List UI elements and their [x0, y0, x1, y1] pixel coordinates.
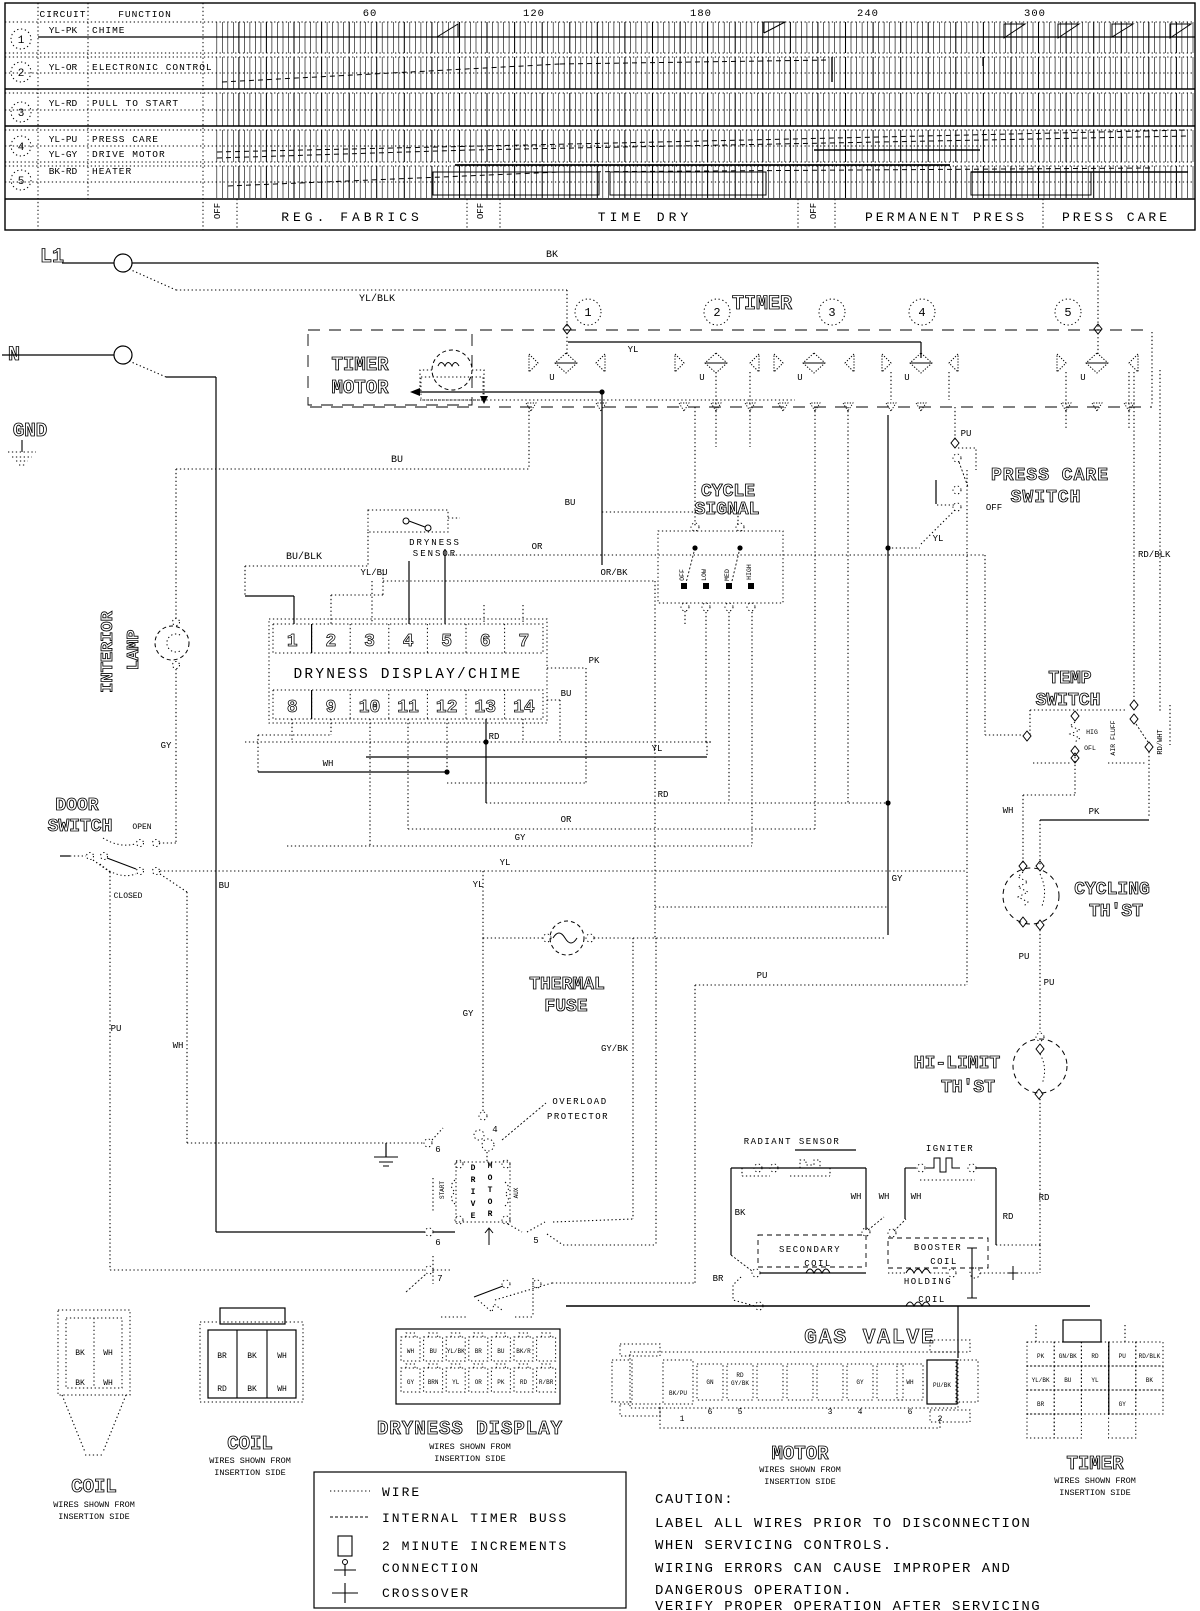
door switch feed dotted	[70, 855, 86, 857]
svg-text:IGNITER: IGNITER	[926, 1144, 974, 1154]
svg-text:LAMP: LAMP	[125, 630, 144, 671]
timer cam circle 5	[1055, 299, 1081, 325]
svg-text:4: 4	[858, 1408, 863, 1417]
chart row divider (dotted)	[5, 181, 1195, 183]
dryness conn top cell BK/R	[514, 1337, 533, 1361]
svg-text:PU: PU	[1019, 952, 1030, 962]
svg-text:M: M	[488, 1162, 493, 1171]
wire into pin1 (solid)	[245, 595, 294, 597]
wire PU cycling down	[1039, 930, 1041, 1032]
temp switch bottom diamond	[1071, 746, 1079, 756]
svg-text:YL/BK: YL/BK	[1032, 1377, 1050, 1384]
radiant sensor bracket	[742, 1175, 770, 1177]
timer terminal triangle	[916, 403, 926, 411]
thermal fuse circle	[550, 921, 584, 955]
timer conn cell r2c2	[1081, 1390, 1108, 1414]
svg-text:RD: RD	[520, 1379, 528, 1386]
wire RD/BLK vertical	[1159, 370, 1161, 712]
chart column line function	[87, 3, 89, 199]
timer connector tabs	[1063, 1320, 1101, 1342]
wire PU down to gas valve area	[694, 985, 696, 1283]
svg-text:GY: GY	[407, 1379, 415, 1386]
cycle signal out stub 1	[684, 611, 686, 625]
door switch open contacts	[137, 840, 144, 847]
wire into temp switch	[985, 734, 1000, 736]
svg-text:1: 1	[18, 35, 25, 47]
motor conn cell BK/PU	[663, 1360, 693, 1404]
svg-text:INTERIOR: INTERIOR	[99, 610, 118, 692]
chart column line circuit	[37, 3, 39, 230]
wire YL solid mid	[366, 756, 707, 758]
svg-text:RD: RD	[1003, 1212, 1014, 1222]
dryness conn bottom cell BRN	[424, 1368, 443, 1392]
dryness conn top cell 6	[537, 1337, 556, 1361]
svg-text:11: 11	[397, 698, 419, 718]
chart trace heater	[228, 172, 560, 186]
timer cam circle 1	[575, 299, 601, 325]
temp switch bracket	[1030, 709, 1125, 711]
wire WH from temp switch	[1074, 757, 1076, 795]
svg-text:PERMANENT PRESS: PERMANENT PRESS	[865, 210, 1027, 225]
svg-text:6: 6	[708, 1408, 713, 1417]
motor centrifugal contacts	[502, 1280, 510, 1288]
svg-text:DOOR: DOOR	[55, 796, 98, 816]
motor terminal 6 circle	[425, 1228, 433, 1236]
motor terminal 6a circle	[424, 1139, 432, 1147]
wire BK from L1 (solid)	[132, 262, 1098, 264]
svg-text:REG. FABRICS: REG. FABRICS	[281, 210, 423, 225]
chart circuit number 3	[11, 102, 31, 122]
press care common circle	[953, 454, 961, 462]
svg-text:GY/BK: GY/BK	[601, 1044, 629, 1054]
temp switch right diamond 3	[1145, 742, 1153, 752]
svg-text:YL: YL	[1091, 1377, 1099, 1384]
wire motor conn 2 (solid)	[957, 1306, 959, 1358]
svg-text:WH: WH	[323, 759, 334, 769]
booster coil box	[888, 1238, 988, 1268]
svg-text:GY: GY	[892, 874, 903, 884]
svg-text:YL: YL	[452, 1379, 460, 1386]
door switch feed (solid)	[60, 855, 70, 857]
wire pin8 down	[291, 719, 293, 742]
wire PU to motor 7	[110, 1269, 424, 1271]
svg-text:I: I	[471, 1188, 476, 1197]
motor centrifugal actuator	[478, 1300, 502, 1312]
dryness display cell divider	[311, 624, 313, 653]
dryness conn bottom cell R/BR	[537, 1368, 556, 1392]
dryness display connector outer	[396, 1329, 560, 1404]
svg-text:PK: PK	[497, 1379, 505, 1386]
svg-text:WH: WH	[407, 1348, 415, 1355]
dryness display cell divider	[426, 624, 428, 653]
radiant sensor underline	[795, 1149, 856, 1151]
dryness conn bottom cell YL	[446, 1368, 465, 1392]
svg-text:YL: YL	[628, 345, 639, 355]
cycle signal bottom pin	[725, 603, 733, 611]
cycle signal lower contact	[703, 583, 709, 589]
motor conn cell 757	[757, 1364, 783, 1400]
wire BR down	[733, 1277, 755, 1306]
svg-text:YL-OR: YL-OR	[49, 62, 78, 73]
booster crossover	[971, 1248, 973, 1298]
wire contact3 drop	[814, 407, 816, 829]
press care NO corner	[958, 448, 976, 470]
svg-text:SECONDARY: SECONDARY	[779, 1245, 841, 1255]
svg-text:BK: BK	[735, 1208, 746, 1218]
ground symbol motor	[374, 1156, 398, 1158]
chart chime mark 3	[1004, 24, 1025, 38]
svg-text:O: O	[488, 1174, 493, 1183]
svg-text:HI-LIMIT: HI-LIMIT	[914, 1054, 1001, 1074]
cycling thst top diamonds	[1019, 861, 1027, 871]
timer conn mid divider	[1108, 1342, 1110, 1414]
chart row divider (dotted)	[5, 145, 1195, 147]
svg-text:BK/R: BK/R	[516, 1348, 531, 1355]
timer cam circle 3	[819, 299, 845, 325]
holding coil line	[888, 1272, 906, 1274]
wire BU to motor (solid)	[216, 1231, 425, 1233]
press care L bracket	[935, 480, 937, 504]
svg-text:U: U	[1080, 373, 1085, 383]
svg-text:BRN: BRN	[428, 1379, 439, 1386]
timer conn cell r1c0	[1027, 1366, 1054, 1390]
hi-limit bottom diamond	[1035, 1089, 1043, 1099]
svg-text:BU: BU	[429, 1348, 437, 1355]
cycle signal lower contact	[748, 583, 754, 589]
dryness display pin8 divider (solid)	[311, 690, 313, 719]
svg-text:MED: MED	[724, 569, 731, 581]
stub pin7	[522, 605, 524, 624]
svg-text:BU: BU	[391, 455, 403, 466]
svg-text:BU: BU	[565, 498, 576, 508]
svg-text:COIL: COIL	[227, 1433, 273, 1455]
burner line terminal	[755, 1302, 763, 1310]
thermal fuse terminals	[543, 934, 551, 942]
chart heater box 3	[971, 172, 1091, 195]
svg-text:BU: BU	[219, 881, 230, 891]
motor centrifugal blade	[474, 1286, 503, 1297]
svg-text:BR: BR	[1037, 1401, 1045, 1408]
press care blade	[959, 462, 968, 487]
cycling thst bottom diamonds	[1019, 917, 1027, 927]
door switch closed arc	[100, 864, 136, 876]
chart heater box 2	[610, 172, 766, 195]
svg-text:START: START	[439, 1181, 446, 1199]
svg-text:GY: GY	[463, 1009, 474, 1019]
door switch closed contacts	[137, 868, 144, 875]
chart row divider (dotted)	[5, 56, 1195, 58]
svg-text:WIRES SHOWN FROM: WIRES SHOWN FROM	[53, 1500, 135, 1510]
svg-text:6: 6	[435, 1145, 440, 1155]
wire BU from box	[547, 699, 560, 701]
chart chime mark 1	[437, 24, 458, 37]
cycle signal blade 2	[731, 548, 740, 585]
timer conn cell r0c2	[1081, 1342, 1108, 1366]
svg-text:YL: YL	[933, 534, 944, 544]
svg-text:YL-GY: YL-GY	[49, 149, 78, 160]
chart row divider (dotted)	[5, 52, 1195, 54]
chart row divider (dotted)	[5, 161, 1195, 163]
motor connector right bracket	[956, 1360, 978, 1402]
dryness display cell divider	[465, 624, 467, 653]
wire contact3b drop	[847, 407, 849, 803]
legend buss sample	[330, 1516, 370, 1518]
svg-text:LABEL ALL WIRES PRIOR TO DISCO: LABEL ALL WIRES PRIOR TO DISCONNECTION	[655, 1516, 1031, 1532]
svg-text:BK: BK	[546, 250, 558, 261]
connector diamond on BK drop	[1094, 324, 1102, 334]
wire N lead	[2, 354, 114, 356]
timer contact tail	[948, 372, 950, 400]
wire OR2 horizontal	[408, 828, 815, 830]
GND lead	[21, 440, 23, 452]
cycle signal lower contact	[726, 583, 732, 589]
svg-text:GN/BK: GN/BK	[1059, 1353, 1077, 1360]
svg-text:R/BR: R/BR	[539, 1379, 554, 1386]
chart bottom divider 5	[834, 199, 836, 230]
svg-text:WH: WH	[879, 1192, 890, 1202]
timer conn cell r2c0	[1027, 1390, 1054, 1414]
motor 7 stub	[433, 1269, 452, 1271]
wire PK solid	[1040, 819, 1149, 821]
svg-text:GN: GN	[706, 1379, 714, 1386]
svg-text:INTERNAL TIMER BUSS: INTERNAL TIMER BUSS	[382, 1511, 568, 1526]
door switch open arc	[103, 838, 135, 845]
timer cam circle 4	[909, 299, 935, 325]
svg-text:COIL: COIL	[918, 1295, 946, 1305]
timer conn cell r2c3	[1109, 1390, 1136, 1414]
wire BU corner up to timer	[528, 407, 530, 469]
svg-text:GY: GY	[161, 741, 172, 751]
svg-text:OR/BK: OR/BK	[600, 568, 628, 578]
timer buss bottom (dotted)	[420, 399, 795, 401]
cycling thst heater zigzag	[1018, 872, 1028, 907]
svg-text:RD/BLK: RD/BLK	[1139, 1353, 1161, 1360]
radiant sensor element	[800, 1160, 820, 1168]
press care lower circle 2	[953, 503, 961, 511]
svg-text:PU: PU	[757, 971, 768, 981]
svg-text:GY: GY	[856, 1379, 864, 1386]
coil connector 1 inner	[66, 1318, 122, 1388]
chart trace electronic control	[222, 64, 560, 82]
wire BU lamp feed	[176, 468, 529, 470]
svg-text:U: U	[797, 373, 802, 383]
timer conn cell r3c0	[1027, 1414, 1054, 1438]
wire OR/BK heater drop	[655, 938, 657, 1245]
svg-text:FUNCTION: FUNCTION	[118, 9, 172, 20]
svg-text:WH: WH	[851, 1192, 862, 1202]
press care lower circle	[953, 486, 961, 494]
wire H742	[245, 741, 711, 743]
cycle signal pivots	[692, 545, 697, 550]
svg-text:OFF: OFF	[213, 203, 223, 219]
dryness display cell divider	[388, 624, 390, 653]
svg-text:5: 5	[533, 1236, 538, 1246]
chart trace electronic control tick	[982, 57, 984, 66]
svg-text:4: 4	[18, 142, 25, 154]
timer terminal triangle	[596, 403, 606, 411]
timer contact group 3	[774, 354, 783, 372]
svg-text:PRESS CARE: PRESS CARE	[1062, 210, 1170, 225]
svg-text:YL/BLK: YL/BLK	[359, 293, 395, 305]
coil connector 1 outer	[58, 1310, 130, 1395]
dryness conn bottom cell RD	[514, 1368, 533, 1392]
svg-text:BOOSTER: BOOSTER	[914, 1243, 962, 1253]
svg-text:TEMP: TEMP	[1048, 669, 1091, 689]
svg-text:OPEN: OPEN	[132, 823, 151, 832]
overload contacts	[474, 1130, 484, 1140]
timer terminal triangle	[843, 403, 853, 411]
timer conn cell r2c1	[1054, 1390, 1081, 1414]
svg-text:PU: PU	[1044, 978, 1055, 988]
chart chime mark 2	[764, 22, 785, 33]
timer conn cell r1c4	[1136, 1366, 1163, 1390]
wire BK drop to timer contact 5	[1097, 263, 1099, 356]
timer motor supply arrow	[410, 388, 420, 396]
svg-text:4: 4	[918, 306, 925, 320]
igniter element	[926, 1158, 960, 1172]
svg-text:CIRCUIT: CIRCUIT	[40, 9, 87, 20]
wire PK from box	[547, 667, 586, 669]
door switch blade	[107, 858, 136, 869]
dryness sensor box	[368, 510, 448, 532]
chart heater box 1	[433, 172, 599, 195]
svg-text:OFF: OFF	[679, 569, 686, 581]
motor conn cell 787	[787, 1364, 813, 1400]
svg-text:4: 4	[403, 632, 414, 652]
svg-text:SWITCH: SWITCH	[1011, 488, 1082, 508]
svg-text:7: 7	[518, 632, 529, 652]
svg-text:YL/BK: YL/BK	[447, 1348, 465, 1355]
holding coil winding	[906, 1302, 930, 1306]
svg-text:PK: PK	[589, 656, 600, 666]
svg-text:WH: WH	[277, 1385, 287, 1394]
svg-text:BU: BU	[561, 689, 572, 699]
wire pin14 down	[522, 719, 524, 742]
timer contact tail	[890, 372, 892, 400]
overload lead to motor	[486, 1152, 488, 1162]
dryness display pin1 divider (solid)	[311, 624, 313, 653]
motor conn cell 817	[817, 1364, 843, 1400]
chart row divider (dotted)	[5, 72, 1195, 74]
svg-text:BK: BK	[1146, 1377, 1154, 1384]
svg-text:2: 2	[18, 68, 25, 80]
wire main burner (solid)	[566, 1305, 1090, 1307]
svg-text:COIL: COIL	[930, 1257, 958, 1267]
cycle signal lower contact	[681, 583, 687, 589]
svg-text:5: 5	[1064, 306, 1071, 320]
interior lamp terminals	[173, 619, 180, 626]
wire OR/BK long drop	[654, 581, 656, 938]
timer buss top (solid)	[568, 341, 921, 343]
svg-text:R: R	[471, 1176, 476, 1185]
svg-text:BU: BU	[497, 1348, 505, 1355]
svg-text:6: 6	[480, 632, 491, 652]
timer conn cell r0c0	[1027, 1342, 1054, 1366]
motor conn cell PU/BK	[927, 1360, 957, 1404]
svg-text:WH: WH	[906, 1379, 914, 1386]
sensor wire into pin5 (solid)	[444, 549, 446, 624]
L1 terminal circle	[114, 254, 132, 272]
svg-text:13: 13	[474, 698, 496, 718]
timer boundary bottom (dashed)	[310, 406, 1152, 408]
svg-text:FUSE: FUSE	[544, 997, 587, 1017]
chart column line timeline start	[202, 3, 204, 230]
wire lamp bottom	[175, 669, 177, 843]
svg-text:DRYNESS: DRYNESS	[409, 538, 461, 548]
wire PK from temp switch	[1148, 752, 1150, 818]
timer contact tail	[1065, 372, 1067, 430]
svg-text:BK: BK	[75, 1349, 85, 1358]
N terminal circle	[114, 346, 132, 364]
dryness sensor contacts	[403, 518, 409, 524]
svg-text:GY/BK: GY/BK	[731, 1380, 749, 1387]
motor conn cell GY	[847, 1364, 873, 1400]
junction dot pin13	[483, 739, 488, 744]
svg-text:WH: WH	[277, 1352, 287, 1361]
wire OR drop	[984, 555, 986, 735]
connector diamond on YL/BLK	[563, 324, 571, 334]
svg-text:60: 60	[363, 8, 378, 20]
overload pointer line	[502, 1103, 546, 1140]
booster terminals	[948, 1269, 956, 1277]
timer terminal triangle	[1061, 403, 1071, 411]
secondary coil left terminal	[752, 1269, 760, 1277]
timer motor supply line (solid)	[418, 391, 602, 393]
svg-text:WIRES SHOWN FROM: WIRES SHOWN FROM	[209, 1456, 291, 1466]
svg-text:YL: YL	[500, 858, 511, 868]
hi-limit blade	[1040, 1054, 1045, 1084]
svg-text:U: U	[699, 373, 704, 383]
svg-text:BU: BU	[1064, 1377, 1072, 1384]
svg-text:PU/BK: PU/BK	[933, 1382, 951, 1389]
svg-text:WHEN SERVICING CONTROLS.: WHEN SERVICING CONTROLS.	[655, 1538, 893, 1554]
svg-text:12: 12	[436, 698, 458, 718]
svg-text:AIR FLUFF: AIR FLUFF	[1110, 720, 1117, 755]
wire RD horizontal	[486, 802, 888, 804]
stub pin6	[483, 605, 485, 624]
chart bottom divider off col 1	[236, 199, 238, 230]
wire pin12 down	[446, 719, 448, 772]
motor start winding	[452, 1180, 456, 1204]
svg-text:WH: WH	[103, 1379, 113, 1388]
wire into pin3	[371, 581, 373, 624]
svg-text:TIMER: TIMER	[331, 354, 389, 376]
motor terminal 7 circle	[425, 1266, 433, 1274]
svg-text:D: D	[471, 1164, 476, 1173]
svg-text:7: 7	[437, 1274, 442, 1284]
dryness conn top cell WH	[401, 1337, 420, 1361]
svg-text:WH: WH	[173, 1041, 184, 1051]
wire PU press care to cycling	[966, 470, 968, 985]
svg-text:BU/BLK: BU/BLK	[286, 551, 322, 563]
timer terminal triangle	[886, 403, 896, 411]
wire GY vertical (solid)	[887, 415, 889, 935]
timer terminal triangle	[1124, 403, 1134, 411]
svg-text:CYCLE: CYCLE	[701, 482, 755, 502]
wire WH solid	[258, 771, 447, 773]
wire BU/BLK down	[244, 566, 246, 596]
chart row divider (solid)	[5, 198, 1195, 200]
svg-text:HEATER: HEATER	[92, 166, 132, 177]
motor conn cell RD GY/BK	[727, 1364, 753, 1400]
svg-text:BK/PU: BK/PU	[669, 1390, 687, 1397]
svg-text:PU: PU	[111, 1024, 122, 1034]
coil connector 2 dividers	[236, 1330, 238, 1398]
motor aux winding	[505, 1182, 509, 1206]
wire BK to secondary	[731, 1255, 752, 1271]
chart heater bar 1	[455, 164, 950, 166]
chart row divider (solid)	[5, 125, 1195, 127]
